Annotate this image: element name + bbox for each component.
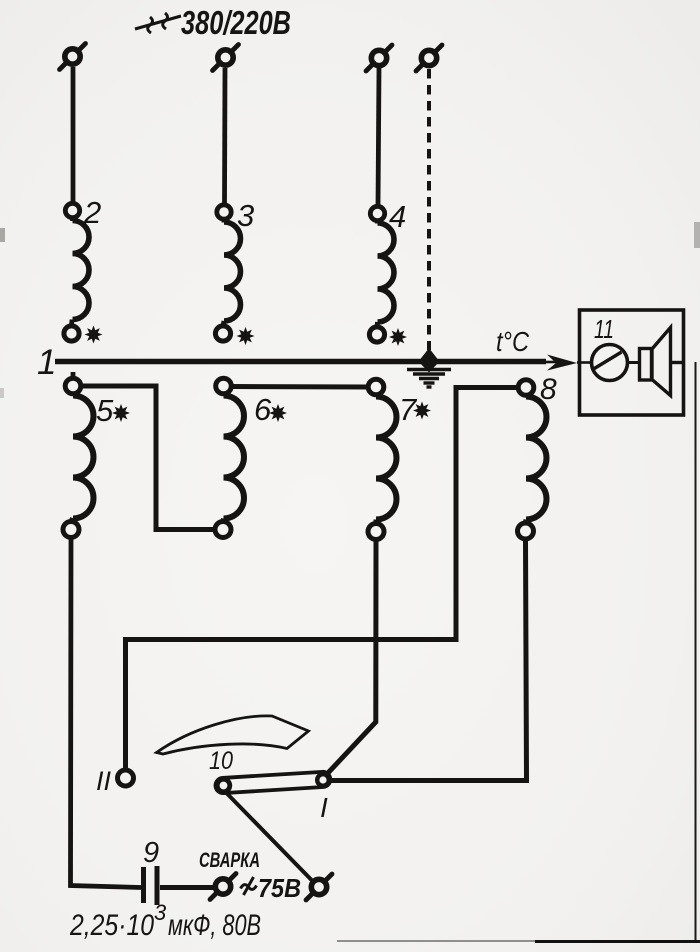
polarity mark winding 2 <box>85 326 103 344</box>
winding 6 (secondary) <box>215 378 244 537</box>
svg-text:3: 3 <box>154 900 167 925</box>
svg-text:I: I <box>320 792 328 823</box>
terminal X1 <box>60 44 86 70</box>
polarity mark winding 3 <box>237 327 255 345</box>
terminal X4 <box>416 45 442 71</box>
wire winding 8 bottom to switch contact I <box>329 540 527 781</box>
svg-text:2,25·10: 2,25·10 <box>69 909 154 942</box>
wire winding 5 top to winding 6 bottom <box>81 386 215 530</box>
terminal X2 <box>213 45 239 71</box>
svg-text:5: 5 <box>96 393 114 428</box>
wire X2 to winding 3 <box>222 68 227 205</box>
svg-text:мкФ, 80В: мкФ, 80В <box>168 909 261 942</box>
wire capacitor to welding terminal <box>160 885 214 890</box>
polarity mark winding 6 <box>269 404 287 422</box>
terminal II (fixed contact) <box>118 770 134 786</box>
wire winding 5 bottom to capacitor 9 <box>71 538 142 888</box>
polarity mark winding 5 <box>112 404 130 422</box>
indicator dial circle <box>592 345 628 381</box>
switch 10 pivot <box>217 779 230 792</box>
winding 3 (primary) <box>215 205 240 341</box>
winding 4 (primary) <box>369 206 394 342</box>
terminal X3 <box>366 45 392 71</box>
winding 2 (primary) <box>64 203 89 341</box>
wire winding 8 top to terminal II <box>126 388 518 770</box>
svg-text:t°C: t°C <box>496 326 530 357</box>
svg-text:8: 8 <box>540 373 557 406</box>
svg-text:1: 1 <box>37 343 56 382</box>
capacitor 9 <box>144 866 158 905</box>
switch 10 blade <box>215 771 331 793</box>
winding 5 (secondary) <box>63 372 94 538</box>
svg-text:9: 9 <box>143 837 159 869</box>
svg-text:СВАРКА: СВАРКА <box>199 849 260 872</box>
speaker (buzzer) symbol <box>640 328 684 396</box>
indicator needle <box>594 352 622 369</box>
wire dial to speaker <box>628 361 640 364</box>
winding 7 (secondary) <box>368 379 397 539</box>
label ~75V <box>241 873 302 903</box>
svg-text:380/220В: 380/220В <box>181 4 291 41</box>
wire X3 to winding 4 <box>378 68 379 206</box>
svg-text:II: II <box>96 766 111 796</box>
wire X1 to winding 2 <box>71 67 76 204</box>
svg-text:7: 7 <box>399 392 418 427</box>
svg-text:11: 11 <box>594 314 614 344</box>
wire winding 7 bottom to switch contact I <box>327 540 376 774</box>
polarity mark winding 7 <box>413 402 431 420</box>
svg-text:3: 3 <box>237 198 254 233</box>
page edge line bottom <box>337 940 535 942</box>
magnetic core line 1 with arrow to sensor 11 <box>55 355 592 371</box>
value label 2,25·10^3 мкФ, 80В <box>69 900 261 942</box>
welding output terminal B <box>306 874 332 900</box>
switch contact I <box>317 774 329 786</box>
svg-text:4: 4 <box>389 199 406 234</box>
thermal indicator box 11 <box>580 310 684 415</box>
svg-text:10: 10 <box>209 747 233 775</box>
dashed wire X4 to core ground junction <box>427 69 431 350</box>
label 380/220V supply with AC symbol <box>135 4 291 41</box>
polarity mark winding 4 <box>389 328 407 346</box>
page edge line right <box>695 362 697 941</box>
svg-text:6: 6 <box>254 392 272 427</box>
winding 8 (secondary) <box>518 380 547 539</box>
ground symbol <box>407 370 451 388</box>
wire switch pivot to welding terminal <box>225 792 313 882</box>
svg-text:75В: 75В <box>258 873 301 903</box>
scan smudge marks <box>0 228 5 242</box>
curved motion arrow over switch <box>157 716 309 754</box>
wire winding 6 top to winding 7 top <box>232 384 369 390</box>
welding output terminal A <box>210 874 236 900</box>
svg-text:2: 2 <box>83 195 101 230</box>
core ground junction <box>419 348 440 373</box>
